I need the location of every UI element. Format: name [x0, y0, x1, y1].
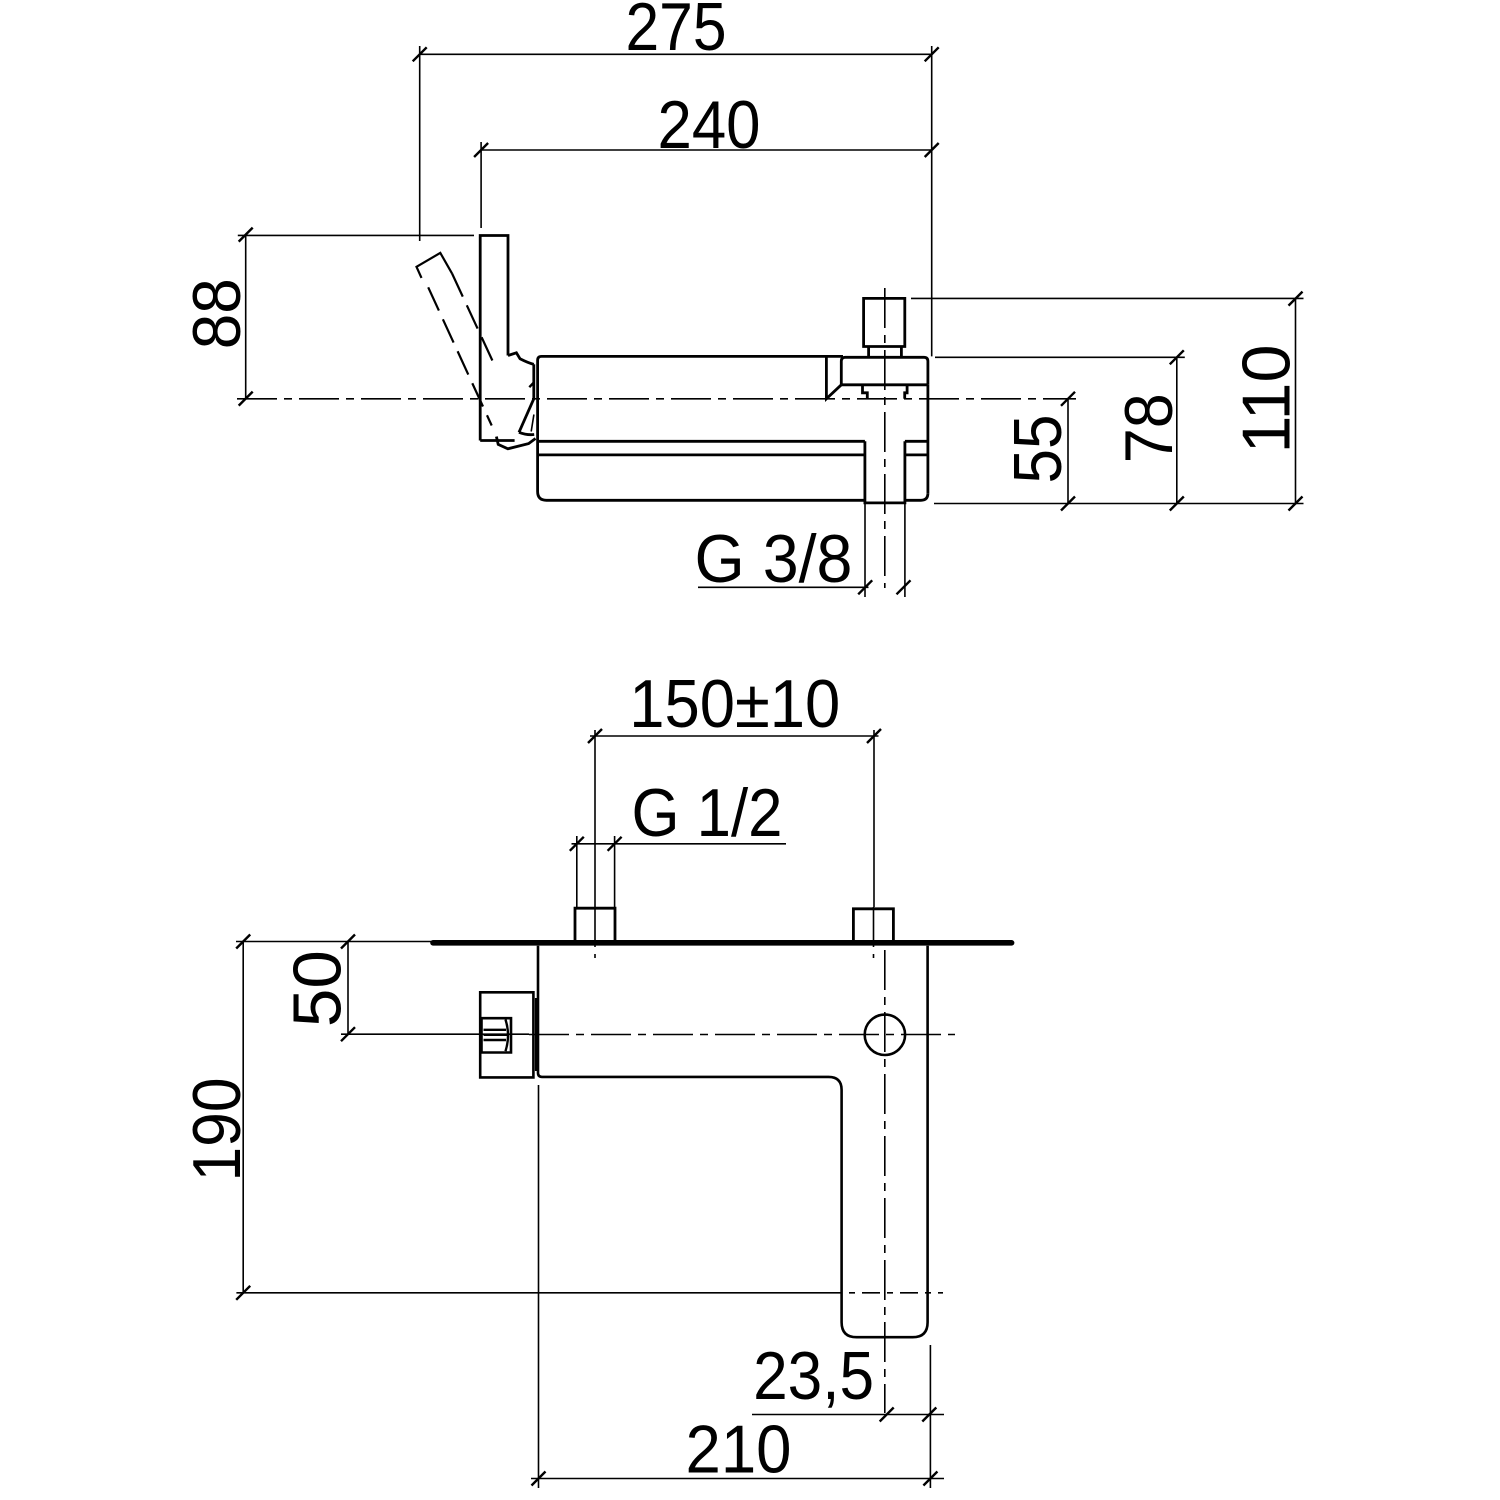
svg-text:190: 190: [179, 1078, 255, 1182]
svg-text:150±10: 150±10: [629, 666, 840, 742]
svg-text:210: 210: [686, 1412, 792, 1488]
svg-text:110: 110: [1228, 345, 1304, 454]
svg-text:23,5: 23,5: [753, 1338, 874, 1414]
svg-text:240: 240: [658, 87, 761, 163]
svg-text:275: 275: [626, 0, 727, 65]
svg-text:G 3/8: G 3/8: [695, 521, 853, 597]
svg-text:88: 88: [179, 278, 255, 349]
svg-text:55: 55: [1000, 415, 1076, 484]
svg-text:78: 78: [1111, 393, 1187, 463]
svg-text:50: 50: [279, 950, 355, 1027]
svg-text:G 1/2: G 1/2: [632, 775, 783, 851]
